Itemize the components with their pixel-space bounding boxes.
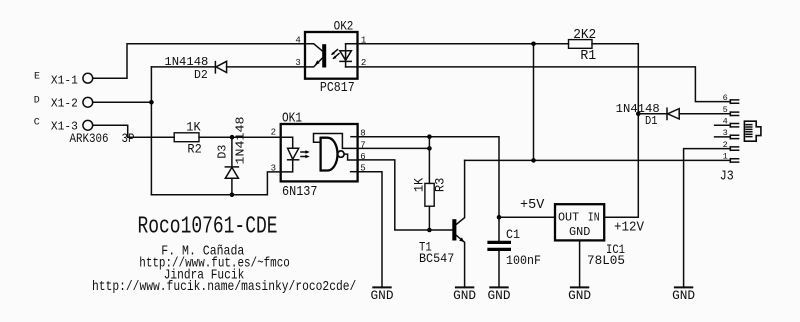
svg-text:100nF: 100nF <box>506 253 541 268</box>
J3 pin 1 contact <box>730 159 738 163</box>
diode D3 1N4148 <box>231 137 233 166</box>
wire D net to OK1 pin 3 <box>151 172 280 195</box>
OK1 LED <box>281 137 293 148</box>
J3 pin 5 contact <box>730 112 738 116</box>
OK1 light arrows <box>301 152 307 157</box>
wire +5V node to IC1 OUT <box>499 216 555 218</box>
svg-text:ARK306 3P: ARK306 3P <box>70 131 135 146</box>
svg-text:R3: R3 <box>433 178 448 192</box>
resistor R3 1K <box>428 137 430 184</box>
OK1 pin 5 internal stub <box>351 171 358 173</box>
svg-text:3: 3 <box>295 58 300 68</box>
junction dot +5V <box>497 215 502 220</box>
junction dot collector net <box>531 158 536 163</box>
svg-text:http://www.fucik.name/masinky/: http://www.fucik.name/masinky/roco2cde/ <box>92 279 356 295</box>
svg-text:PC817: PC817 <box>320 81 355 96</box>
svg-text:GND: GND <box>672 289 695 303</box>
svg-text:1: 1 <box>723 152 728 162</box>
ground GND (J3 pin 2) <box>674 286 693 288</box>
ground GND (OK1 pin5) <box>372 286 391 288</box>
wire IC1 GND to ground <box>579 240 581 287</box>
svg-text:2K2: 2K2 <box>573 27 596 43</box>
resistor R2 <box>174 133 199 142</box>
OK1 gate <box>319 137 321 172</box>
junction dot R3 top <box>427 134 432 139</box>
regulator IC1 78L05 <box>555 204 604 240</box>
svg-text:5: 5 <box>723 105 728 115</box>
junction dot T1 base <box>427 228 432 233</box>
ground GND (C1) <box>489 286 508 288</box>
wire OK1 pin 5 to GND <box>358 172 382 288</box>
svg-text:X1-1: X1-1 <box>51 73 78 87</box>
resistor R1 2K2 <box>569 40 593 49</box>
OK1 pin 7 internal <box>314 134 358 149</box>
svg-text:2: 2 <box>271 128 276 138</box>
svg-text:D: D <box>34 95 40 106</box>
diode D2 1N4148 <box>214 62 216 73</box>
svg-text:Roco10761-CDE: Roco10761-CDE <box>138 214 278 241</box>
diode D1 1N4148 <box>638 113 667 115</box>
svg-text:OK2: OK2 <box>334 19 354 34</box>
svg-text:4: 4 <box>295 35 300 45</box>
svg-text:1K: 1K <box>412 178 427 192</box>
svg-text:OK1: OK1 <box>282 112 302 127</box>
svg-text:X1-2: X1-2 <box>51 96 78 110</box>
wire D2 anode to OK2 pin 3 <box>227 66 306 68</box>
J3 pin 4 contact and stub <box>715 123 739 127</box>
junction dot X1-2 <box>149 100 154 105</box>
OK2 light arrows <box>332 50 339 59</box>
svg-text:78L05: 78L05 <box>587 253 625 268</box>
svg-text:GND: GND <box>488 289 511 303</box>
wire R1 to +12V rail <box>592 44 638 217</box>
junction dot top <box>531 42 536 47</box>
svg-text:R2: R2 <box>187 141 201 156</box>
svg-text:6N137: 6N137 <box>282 185 318 200</box>
ground GND (IC1) <box>570 286 589 288</box>
OK1 gate bubble <box>338 151 344 157</box>
capacitor C1 100nF <box>498 217 500 241</box>
wire OK1 pin 7 <box>358 147 430 149</box>
OK2 LED <box>345 44 347 67</box>
svg-text:D3: D3 <box>215 145 229 159</box>
J3 pin 6 contact <box>730 100 738 104</box>
svg-text:D2: D2 <box>194 68 208 82</box>
wire OK1 pin 6 to T1 base <box>358 160 453 230</box>
svg-text:+5V: +5V <box>520 197 545 213</box>
wire OK2 pin 2 to J3 pin 6 <box>358 67 731 102</box>
OK1 pin 8 internal stub <box>351 136 358 138</box>
svg-text:C: C <box>34 117 40 128</box>
wire R2 to OK1 pin 2 <box>199 136 281 138</box>
optocoupler OK2 <box>305 32 358 79</box>
wire J3 pin 2 to ground <box>684 149 731 288</box>
svg-text:D1: D1 <box>645 114 658 128</box>
wire T1 collector to J3 pin 1 <box>465 159 731 161</box>
J3 pin 2 contact <box>730 147 738 151</box>
svg-text:R1: R1 <box>580 48 596 64</box>
OK2 phototransistor <box>322 44 326 67</box>
svg-text:C1: C1 <box>506 227 520 242</box>
OK1 pin 6 internal <box>344 154 357 160</box>
svg-text:1N4148: 1N4148 <box>234 116 247 164</box>
svg-text:GND: GND <box>453 289 476 303</box>
svg-text:IN: IN <box>588 212 600 225</box>
wire vertical from top junction <box>533 44 535 161</box>
wire X1-2 to vertical <box>93 101 152 103</box>
svg-text:6: 6 <box>723 93 728 103</box>
svg-text:OUT: OUT <box>558 212 579 225</box>
svg-text:E: E <box>34 71 40 82</box>
ground GND (T1 emitter) <box>455 286 474 288</box>
svg-text:GND: GND <box>569 226 590 239</box>
svg-text:J3: J3 <box>720 170 734 185</box>
wire OK2 pin 1 to R1 <box>358 43 569 45</box>
svg-text:GND: GND <box>371 289 394 303</box>
transistor T1 BC547 <box>452 219 456 240</box>
svg-text:BC547: BC547 <box>419 251 454 266</box>
junction dot D3 top <box>230 135 235 140</box>
J3 jack symbol <box>744 121 761 141</box>
wire X1-3 to R2 <box>93 125 175 137</box>
wire OK1 pin 8 to +5V node <box>358 137 499 218</box>
junction dot D3 bottom <box>230 193 235 198</box>
optocoupler OK1 <box>281 124 358 181</box>
svg-text:1K: 1K <box>186 119 200 134</box>
wire vertical to D2 cathode <box>151 66 215 68</box>
svg-text:3: 3 <box>723 128 728 138</box>
J3 pin 3 contact and stub <box>715 135 739 139</box>
svg-text:+12V: +12V <box>614 219 645 235</box>
wire X1-1 to OK2 pin 4 <box>93 44 306 78</box>
junction dot pin 7 <box>427 146 432 151</box>
wire vertical D net <box>150 67 152 195</box>
svg-text:2: 2 <box>723 140 728 150</box>
svg-text:4: 4 <box>723 116 728 126</box>
svg-text:GND: GND <box>568 289 591 303</box>
svg-text:3: 3 <box>271 163 276 173</box>
junction dot D1 <box>636 112 641 117</box>
